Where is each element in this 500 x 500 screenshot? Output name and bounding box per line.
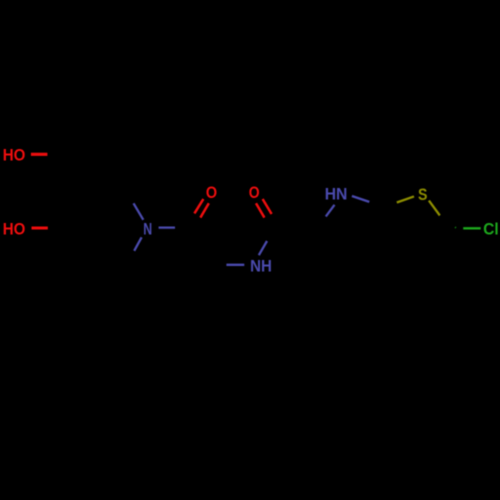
svg-text:HO: HO <box>3 221 26 239</box>
svg-text:S: S <box>418 186 427 204</box>
svg-text:HO: HO <box>3 147 26 165</box>
svg-text:O: O <box>249 184 260 202</box>
svg-text:NH: NH <box>250 258 272 276</box>
svg-text:Cl: Cl <box>483 221 498 239</box>
svg-text:HN: HN <box>325 186 348 204</box>
svg-text:N: N <box>143 221 152 239</box>
svg-text:O: O <box>206 184 217 202</box>
